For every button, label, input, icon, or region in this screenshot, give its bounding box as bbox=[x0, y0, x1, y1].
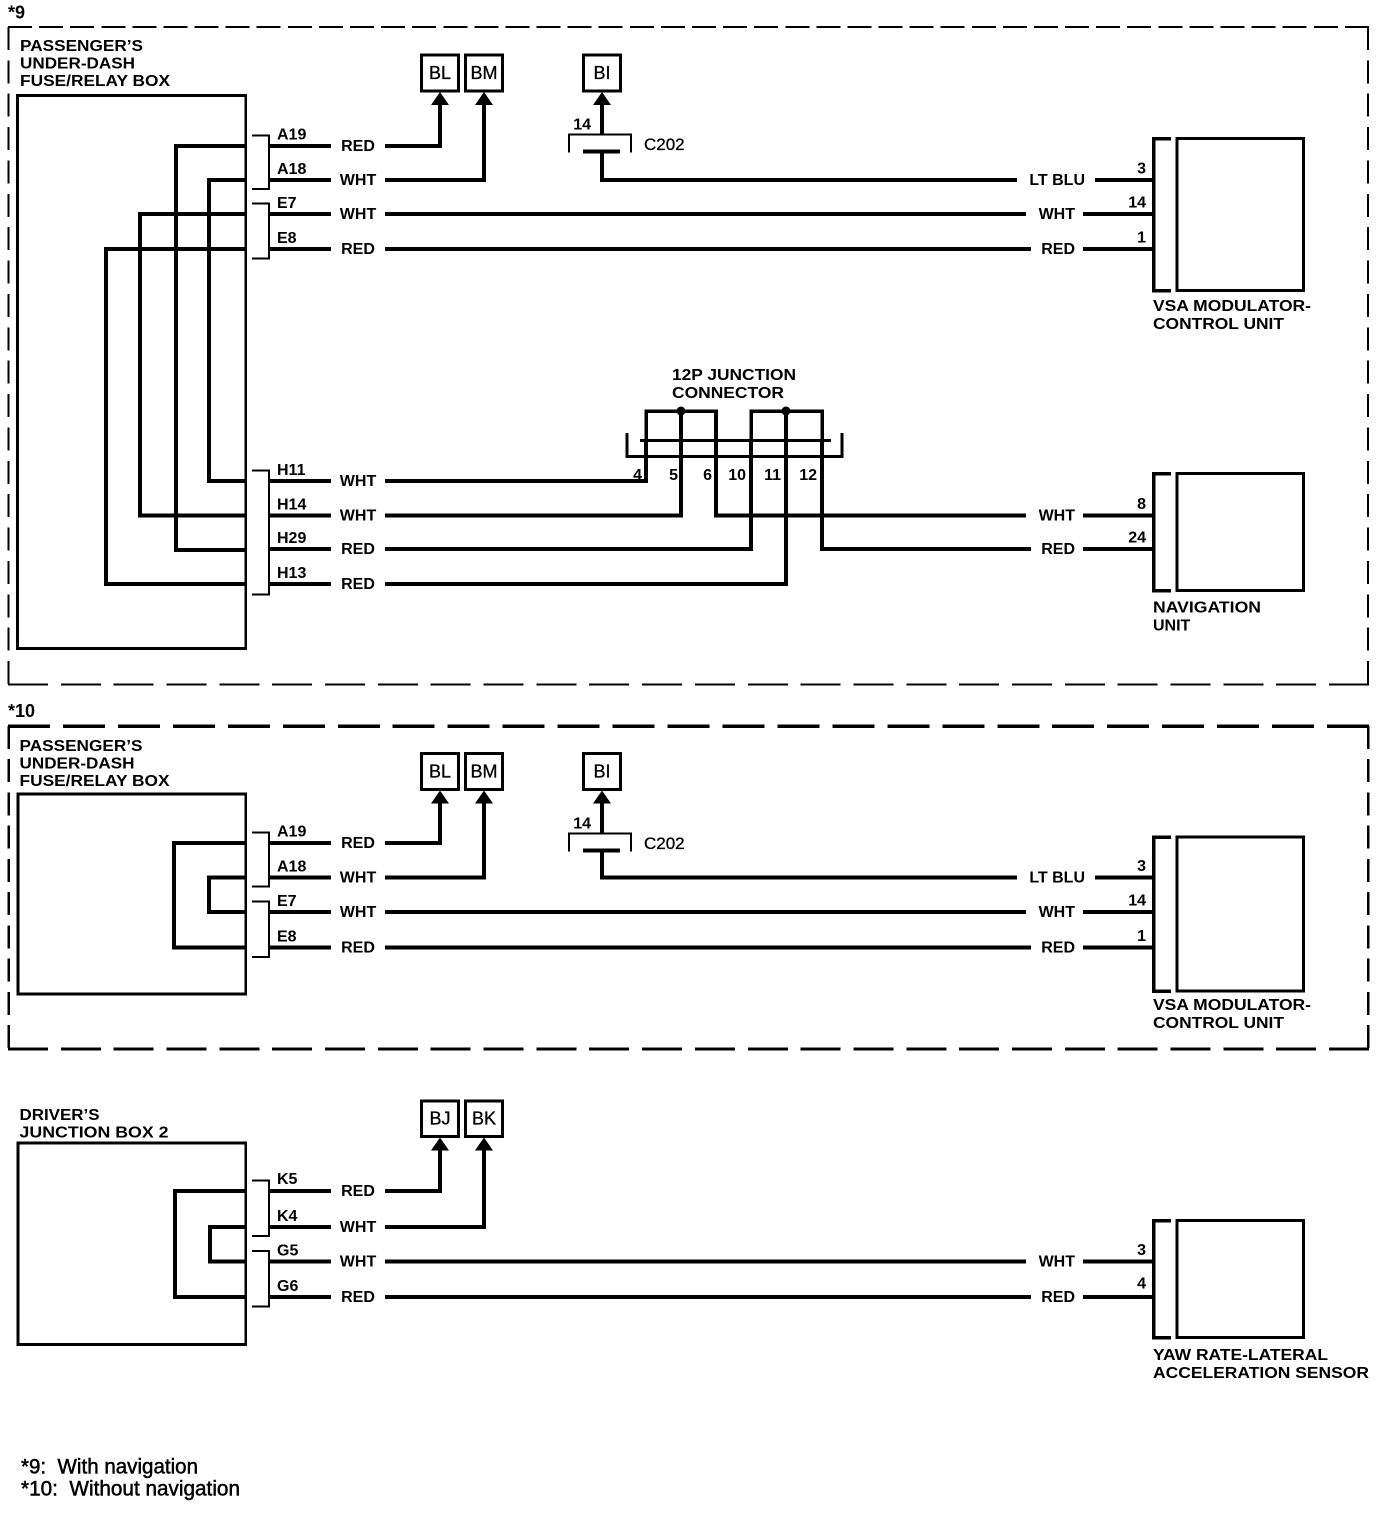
svg-text:RED: RED bbox=[341, 241, 375, 258]
svg-text:BK: BK bbox=[472, 1109, 496, 1129]
svg-text:*9: *9 bbox=[8, 3, 25, 23]
connector BL bbox=[422, 754, 459, 790]
svg-text:8: 8 bbox=[1137, 496, 1146, 513]
svg-text:14: 14 bbox=[1128, 195, 1146, 212]
svg-text:WHT: WHT bbox=[340, 904, 377, 921]
svg-text:RED: RED bbox=[1041, 541, 1075, 558]
svg-text:NAVIGATION: NAVIGATION bbox=[1153, 600, 1261, 617]
svg-text:WHT: WHT bbox=[340, 172, 377, 189]
svg-text:PASSENGER’S: PASSENGER’S bbox=[20, 38, 143, 55]
12P junction connector jumper bus 10-11-12 bbox=[751, 411, 822, 440]
svg-text:11: 11 bbox=[764, 467, 781, 484]
svg-text:RED: RED bbox=[341, 138, 375, 155]
wire from BI into C202 bbox=[600, 103, 604, 135]
junction dot pins 4-5-6 bbox=[677, 407, 686, 416]
svg-text:C202: C202 bbox=[644, 834, 685, 853]
label passenger's under-dash fuse/relay box bbox=[20, 38, 170, 90]
svg-text:G6: G6 bbox=[277, 1278, 298, 1295]
svg-text:14: 14 bbox=[1128, 893, 1146, 910]
driver's junction box 2 bbox=[18, 1143, 246, 1345]
svg-text:UNDER-DASH: UNDER-DASH bbox=[20, 56, 135, 73]
12P junction connector jumper bus 4-5-6 bbox=[646, 411, 716, 440]
svg-text:FUSE/RELAY BOX: FUSE/RELAY BOX bbox=[20, 773, 170, 790]
svg-text:WHT: WHT bbox=[340, 1219, 377, 1236]
svg-text:RED: RED bbox=[341, 1289, 375, 1306]
wire LT BLU from C202 to VSA pin 3 bbox=[600, 178, 1154, 182]
wire A18 WHT to BM (2) bbox=[269, 803, 484, 880]
svg-text:*10: Without navigation: *10: Without navigation bbox=[21, 1478, 240, 1501]
svg-text:CONTROL UNIT: CONTROL UNIT bbox=[1153, 316, 1284, 333]
connector bracket E7/E8 (2) bbox=[252, 902, 269, 958]
wire K5 RED to BJ bbox=[269, 1150, 440, 1194]
wire H29 RED to junction pin 10 bbox=[269, 547, 753, 551]
component box NAVIGATION UNIT bbox=[1177, 474, 1304, 591]
svg-text:1: 1 bbox=[1137, 230, 1146, 247]
svg-text:A19: A19 bbox=[277, 127, 306, 144]
connector bracket H11-H13 bbox=[252, 471, 269, 595]
wire A19 RED to BL (2) bbox=[269, 803, 440, 846]
junction pin 5 lead bbox=[679, 411, 683, 516]
connector BM bbox=[466, 754, 503, 790]
svg-text:6: 6 bbox=[703, 467, 712, 484]
wire H14 WHT to junction pin 5 bbox=[269, 514, 683, 518]
svg-text:H13: H13 bbox=[277, 565, 306, 582]
svg-text:3: 3 bbox=[1137, 1242, 1146, 1259]
svg-text:12: 12 bbox=[799, 467, 817, 484]
wire E7 WHT to VSA pin 14 bbox=[269, 212, 1154, 216]
label 12P junction connector bbox=[672, 367, 796, 402]
wire out of C202 bbox=[600, 152, 604, 183]
wire E8 RED to VSA pin 1 bbox=[269, 247, 1154, 251]
svg-text:CONTROL UNIT: CONTROL UNIT bbox=[1153, 1015, 1284, 1032]
arrow into connector bbox=[475, 791, 493, 878]
internal wire A19 to H29 bbox=[176, 146, 246, 550]
junction pin 6 lead bbox=[714, 411, 718, 516]
connector C202 symbol bbox=[569, 834, 631, 852]
svg-text:C202: C202 bbox=[644, 135, 685, 154]
svg-text:E8: E8 bbox=[277, 929, 297, 946]
svg-text:VSA MODULATOR-: VSA MODULATOR- bbox=[1153, 298, 1311, 315]
svg-text:UNIT: UNIT bbox=[1153, 618, 1191, 635]
svg-text:RED: RED bbox=[341, 940, 375, 957]
svg-text:24: 24 bbox=[1128, 530, 1146, 547]
wire from BI into C202 (2) bbox=[600, 802, 604, 834]
arrow into connector bbox=[593, 92, 611, 120]
svg-text:WHT: WHT bbox=[340, 206, 377, 223]
wire G5 WHT to yaw sensor pin 3 bbox=[269, 1260, 1154, 1264]
dashed frame: without-navigation variant bbox=[8, 726, 1369, 1049]
arrow into connector bbox=[475, 92, 493, 180]
component box bracket bbox=[1154, 139, 1172, 291]
svg-text:A18: A18 bbox=[277, 161, 306, 178]
junction dot pins 10-11-12 bbox=[782, 407, 791, 416]
arrow into connector bbox=[431, 791, 449, 844]
svg-text:YAW RATE-LATERAL: YAW RATE-LATERAL bbox=[1153, 1347, 1328, 1364]
svg-text:BL: BL bbox=[429, 63, 451, 83]
svg-text:E7: E7 bbox=[277, 893, 297, 910]
wire K4 WHT to BK bbox=[269, 1150, 484, 1230]
svg-text:*9: With navigation: *9: With navigation bbox=[21, 1456, 198, 1479]
svg-text:1: 1 bbox=[1137, 928, 1146, 945]
svg-text:UNDER-DASH: UNDER-DASH bbox=[20, 756, 135, 773]
passenger's under-dash fuse/relay box bbox=[18, 96, 246, 649]
internal wire K5 to G6 bbox=[175, 1191, 246, 1297]
svg-text:FUSE/RELAY BOX: FUSE/RELAY BOX bbox=[20, 73, 170, 90]
component box bracket bbox=[1154, 474, 1172, 591]
svg-text:G5: G5 bbox=[277, 1243, 298, 1260]
internal wire A18 to E7 (2) bbox=[209, 878, 246, 913]
svg-text:DRIVER’S: DRIVER’S bbox=[20, 1107, 100, 1124]
svg-text:ACCELERATION SENSOR: ACCELERATION SENSOR bbox=[1153, 1365, 1369, 1382]
svg-text:LT BLU: LT BLU bbox=[1029, 870, 1085, 887]
wire H11 WHT to junction pin 4 bbox=[269, 479, 648, 483]
component box bracket bbox=[1154, 1221, 1172, 1338]
12P junction connector body bbox=[627, 433, 842, 457]
wire A19 RED to BL bbox=[269, 104, 440, 148]
svg-text:RED: RED bbox=[341, 541, 375, 558]
svg-text:E8: E8 bbox=[277, 230, 297, 247]
component box VSA MODULATOR-CONTROL UNIT bbox=[1177, 139, 1304, 291]
svg-text:WHT: WHT bbox=[340, 508, 377, 525]
wire WHT junction pin 6 to navigation pin 8 bbox=[714, 514, 1154, 518]
internal wire K4 to G5 bbox=[210, 1227, 246, 1262]
connector C202 symbol bbox=[569, 135, 631, 153]
wire E7 WHT to VSA pin 14 (2) bbox=[269, 910, 1154, 914]
svg-text:14: 14 bbox=[573, 816, 591, 833]
connector bracket A19/A18 bbox=[252, 136, 269, 190]
label passenger's under-dash fuse/relay box (2) bbox=[20, 738, 170, 790]
svg-text:10: 10 bbox=[728, 467, 746, 484]
connector BI bbox=[584, 55, 621, 91]
svg-text:BM: BM bbox=[471, 762, 498, 782]
svg-text:H11: H11 bbox=[277, 462, 306, 479]
svg-text:RED: RED bbox=[341, 576, 375, 593]
svg-text:A18: A18 bbox=[277, 859, 306, 876]
svg-text:VSA MODULATOR-: VSA MODULATOR- bbox=[1153, 997, 1311, 1014]
svg-text:RED: RED bbox=[1041, 1289, 1075, 1306]
svg-text:E7: E7 bbox=[277, 195, 297, 212]
svg-text:WHT: WHT bbox=[1039, 904, 1076, 921]
wire A18 WHT to BM bbox=[269, 104, 484, 182]
svg-text:BI: BI bbox=[593, 63, 610, 83]
svg-text:WHT: WHT bbox=[1039, 206, 1076, 223]
svg-text:WHT: WHT bbox=[1039, 508, 1076, 525]
arrow into connector bbox=[431, 1138, 449, 1192]
svg-text:K5: K5 bbox=[277, 1171, 298, 1188]
svg-text:PASSENGER’S: PASSENGER’S bbox=[20, 738, 143, 755]
svg-text:RED: RED bbox=[1041, 940, 1075, 957]
component box VSA MODULATOR-CONTROL UNIT (2) bbox=[1177, 837, 1304, 991]
svg-text:CONNECTOR: CONNECTOR bbox=[672, 385, 784, 402]
svg-text:3: 3 bbox=[1137, 858, 1146, 875]
svg-text:H29: H29 bbox=[277, 530, 306, 547]
svg-text:WHT: WHT bbox=[340, 473, 377, 490]
component box bracket bbox=[1154, 837, 1172, 991]
svg-text:5: 5 bbox=[669, 467, 678, 484]
internal wire E7 to H14 bbox=[140, 214, 246, 516]
wire E8 RED to VSA pin 1 (2) bbox=[269, 946, 1154, 950]
connector bracket A19/A18 (2) bbox=[252, 833, 269, 887]
arrow into connector bbox=[431, 92, 449, 146]
svg-text:14: 14 bbox=[573, 117, 591, 134]
svg-text:BM: BM bbox=[471, 63, 498, 83]
svg-text:RED: RED bbox=[341, 1183, 375, 1200]
junction pin 10 lead bbox=[749, 440, 753, 549]
connector bracket E7/E8 bbox=[252, 204, 269, 259]
arrow into connector bbox=[593, 791, 611, 819]
arrow into connector bbox=[475, 1138, 493, 1228]
connector BJ bbox=[422, 1101, 459, 1137]
wire G6 RED to yaw sensor pin 4 bbox=[269, 1295, 1154, 1299]
svg-text:4: 4 bbox=[1137, 1276, 1146, 1293]
svg-text:BI: BI bbox=[593, 762, 610, 782]
svg-text:K4: K4 bbox=[277, 1208, 298, 1225]
connector BL bbox=[422, 55, 459, 91]
junction pin 4 lead bbox=[644, 440, 648, 481]
svg-text:*10: *10 bbox=[8, 701, 35, 721]
svg-text:BL: BL bbox=[429, 762, 451, 782]
wire LT BLU from C202 to VSA pin 3 (2) bbox=[600, 876, 1154, 880]
svg-text:JUNCTION BOX 2: JUNCTION BOX 2 bbox=[20, 1125, 169, 1142]
internal wire A19 to E8 (2) bbox=[174, 843, 246, 948]
svg-text:WHT: WHT bbox=[340, 870, 377, 887]
wire out of C202 (2) bbox=[600, 851, 604, 880]
internal wire E8 to H13 bbox=[106, 249, 246, 584]
connector BI bbox=[584, 754, 621, 790]
component box YAW RATE-LATERAL ACCELERATION SENSOR bbox=[1177, 1221, 1304, 1338]
connector BM bbox=[466, 55, 503, 91]
connector bracket K5/K4 bbox=[252, 1181, 269, 1237]
internal wire A18 to H11 bbox=[209, 180, 246, 481]
dashed frame: with-navigation variant bbox=[8, 27, 1369, 685]
junction pin 12 lead bbox=[820, 440, 824, 549]
svg-text:RED: RED bbox=[1041, 241, 1075, 258]
wire RED junction pin 12 to navigation pin 24 bbox=[820, 547, 1154, 551]
connector bracket G5/G6 bbox=[252, 1251, 269, 1307]
svg-text:LT BLU: LT BLU bbox=[1029, 172, 1085, 189]
svg-text:RED: RED bbox=[341, 835, 375, 852]
label driver's junction box 2 bbox=[20, 1107, 169, 1142]
svg-text:3: 3 bbox=[1137, 161, 1146, 178]
passenger's under-dash fuse/relay box (2) bbox=[18, 794, 246, 994]
svg-text:BJ: BJ bbox=[429, 1109, 450, 1129]
wire H13 RED to junction pin 11 bbox=[269, 582, 788, 586]
svg-text:WHT: WHT bbox=[1039, 1254, 1076, 1271]
svg-text:A19: A19 bbox=[277, 824, 306, 841]
svg-text:WHT: WHT bbox=[340, 1254, 377, 1271]
connector BK bbox=[466, 1101, 503, 1137]
junction pin 11 lead bbox=[784, 411, 788, 584]
svg-text:H14: H14 bbox=[277, 497, 306, 514]
svg-text:12P JUNCTION: 12P JUNCTION bbox=[672, 367, 796, 384]
